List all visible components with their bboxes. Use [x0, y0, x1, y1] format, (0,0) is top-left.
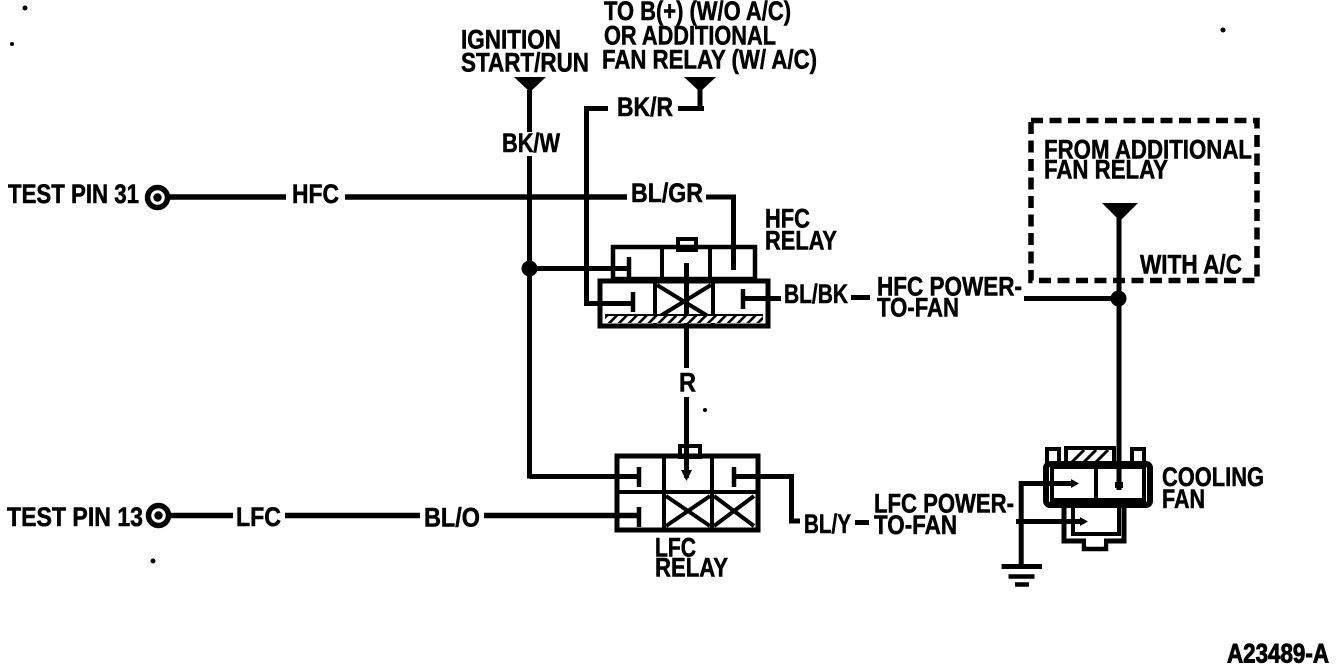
svg-text:WITH A/C: WITH A/C — [1140, 250, 1242, 280]
svg-text:HFC: HFC — [292, 179, 339, 209]
svg-text:BL/BK: BL/BK — [784, 279, 848, 309]
svg-text:TO-FAN: TO-FAN — [874, 510, 957, 540]
svg-text:START/RUN: START/RUN — [461, 48, 589, 78]
svg-text:FAN: FAN — [1162, 484, 1205, 514]
svg-text:TEST PIN 13: TEST PIN 13 — [7, 502, 143, 532]
svg-text:TO-FAN: TO-FAN — [877, 293, 959, 323]
svg-text:RELAY: RELAY — [765, 226, 837, 256]
svg-text:BK/W: BK/W — [502, 128, 560, 158]
svg-text:FAN RELAY: FAN RELAY — [1044, 155, 1168, 185]
svg-text:FAN RELAY (W/ A/C): FAN RELAY (W/ A/C) — [602, 45, 817, 75]
svg-text:BL/O: BL/O — [424, 503, 480, 533]
svg-text:RELAY: RELAY — [655, 553, 728, 583]
svg-text:TEST PIN 31: TEST PIN 31 — [8, 179, 139, 209]
svg-text:R: R — [679, 368, 696, 398]
svg-text:BL/GR: BL/GR — [631, 178, 703, 208]
svg-text:BL/Y: BL/Y — [804, 509, 851, 539]
svg-text:A23489-A: A23489-A — [1227, 639, 1329, 669]
svg-text:BK/R: BK/R — [617, 92, 673, 122]
svg-text:LFC: LFC — [236, 502, 281, 532]
